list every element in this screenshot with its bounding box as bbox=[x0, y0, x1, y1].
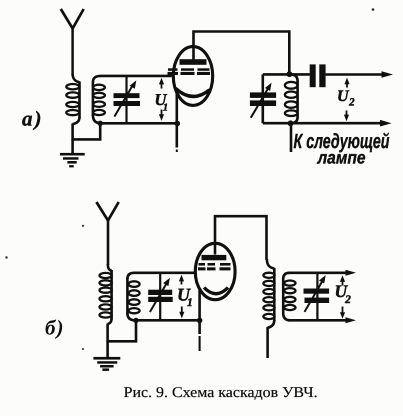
tube V1 envelope bbox=[173, 47, 212, 106]
svg-text:U2: U2 bbox=[337, 88, 355, 109]
tube V2 grid bbox=[198, 263, 231, 270]
U2 voltage arrows (a) bbox=[344, 78, 350, 122]
coil L1 (antenna coil) bbox=[66, 74, 79, 124]
tube V2 anode bbox=[202, 255, 227, 260]
wire L2 bottom to ground junction bbox=[73, 123, 101, 139]
wire L1 bottom to ground junction bbox=[71, 124, 74, 141]
arrow output bottom rail (b) bbox=[346, 317, 357, 323]
wire bottom rail b (L5 to cathode) bbox=[133, 319, 200, 322]
tube V1 anode bbox=[180, 59, 207, 65]
coil L4 (antenna coil b) bbox=[100, 264, 112, 324]
tube V1 grid bbox=[168, 68, 211, 75]
wire output top rail b bbox=[288, 271, 347, 274]
svg-text:б): б) bbox=[45, 316, 64, 340]
print noise dots bbox=[5, 8, 374, 350]
wire output tank top rail bbox=[263, 73, 310, 76]
node output tank top junction bbox=[287, 71, 293, 77]
capacitor C4 (variable) stem bbox=[159, 273, 161, 321]
wire stub down from tank bottom bbox=[290, 123, 293, 152]
wire bottom rail a (L2 to cathode) bbox=[100, 122, 178, 125]
capacitor C1 arrow bbox=[114, 85, 133, 117]
wire output bottom rail b bbox=[288, 319, 347, 322]
wire top rail b (L5 to grid of V2) bbox=[134, 271, 195, 274]
antenna W2 bbox=[96, 202, 118, 221]
capacitor C4 arrow bbox=[150, 284, 167, 313]
U1 voltage arrows (b) bbox=[179, 275, 185, 319]
coil L2 (input tank coil) bbox=[93, 76, 105, 123]
capacitor C4 plates bbox=[148, 290, 173, 302]
wire top rail a (L2 to grid of V1) bbox=[100, 75, 172, 78]
tube V2 cathode lead bbox=[198, 289, 201, 334]
tube V1 cathode bbox=[176, 88, 210, 96]
capacitor C1 (variable) stem bbox=[125, 76, 127, 123]
capacitor C2 (variable) plates bbox=[250, 92, 276, 106]
coil L6 (primary, b) bbox=[263, 259, 274, 328]
svg-text:лампе: лампе bbox=[317, 148, 366, 168]
svg-text:а): а) bbox=[22, 107, 44, 131]
wire output tank bottom rail bbox=[263, 122, 381, 125]
wire ground stem b bbox=[106, 341, 109, 357]
capacitor C3 (coupling) bbox=[310, 64, 326, 87]
U2 voltage arrows (b) bbox=[340, 275, 345, 319]
antenna W1 bbox=[61, 9, 84, 29]
wire anode lead (V2 to L6) bbox=[215, 216, 267, 260]
arrow output top rail (a) bbox=[382, 71, 394, 78]
arrow output top rail (b) bbox=[346, 270, 357, 276]
U1 voltage arrows (a) bbox=[159, 78, 164, 121]
wire L6 bottom stub bbox=[266, 327, 269, 358]
node L2 bottom junction bbox=[98, 121, 103, 126]
coil L3 (output tank coil) bbox=[285, 74, 298, 123]
coil L7 (secondary, b) bbox=[283, 273, 295, 321]
wire L5 bottom to ground junction bbox=[108, 320, 136, 341]
wire output tank left side / C2 stem bbox=[261, 74, 264, 123]
node cathode junction (b) bbox=[197, 318, 203, 324]
ground GND2 bbox=[93, 357, 120, 371]
node cathode junction (a) bbox=[175, 121, 181, 127]
arrow output bottom rail (a) bbox=[380, 120, 392, 127]
wire L4 bottom to ground junction bbox=[106, 324, 109, 343]
ground GND1 bbox=[60, 153, 85, 168]
tube V2 envelope bbox=[195, 243, 235, 299]
wire ground stem bbox=[71, 139, 74, 153]
node output tank bottom junction bbox=[288, 120, 294, 126]
coil L5 (grid tank coil b) bbox=[127, 273, 139, 321]
capacitor C5 (variable) stem bbox=[316, 273, 318, 321]
capacitor C5 arrow bbox=[305, 281, 323, 312]
wire output top rail right bbox=[326, 73, 383, 76]
tube V2 cathode bbox=[204, 288, 228, 294]
capacitor C1 plates bbox=[114, 93, 141, 106]
svg-text:U2: U2 bbox=[335, 281, 352, 306]
svg-text:Рис. 9. Схема каскадов УВЧ.: Рис. 9. Схема каскадов УВЧ. bbox=[124, 385, 318, 401]
wire anode lead (V1 to output tank) bbox=[194, 32, 290, 75]
capacitor C5 plates bbox=[304, 289, 330, 304]
capacitor C2 arrow bbox=[251, 89, 268, 118]
svg-text:U1: U1 bbox=[177, 285, 193, 310]
node L5 bottom junction bbox=[133, 318, 138, 323]
tube V1 cathode lead bbox=[176, 90, 179, 148]
